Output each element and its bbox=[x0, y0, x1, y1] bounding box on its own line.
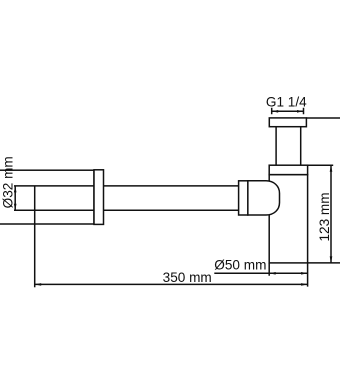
tailpiece flange bbox=[269, 118, 306, 127]
compression nut bbox=[239, 181, 248, 215]
svg-text:123 mm: 123 mm bbox=[317, 192, 332, 241]
inlet pipe wall lines (also Ø32 extension lines) bbox=[14, 186, 239, 210]
dimension line Ø32 bbox=[14, 186, 16, 210]
svg-text:Ø32 mm: Ø32 mm bbox=[1, 156, 16, 208]
extension line at flange top level bbox=[306, 117, 340, 119]
svg-text:350 mm: 350 mm bbox=[163, 270, 212, 285]
tailpiece pipe bbox=[276, 127, 301, 166]
elbow boss bbox=[248, 181, 280, 215]
dimension line 123 mm bbox=[330, 165, 332, 263]
trap collar bbox=[269, 165, 307, 174]
wall flange bbox=[94, 170, 104, 225]
pipe end cap and 350 mm left extension line bbox=[34, 186, 36, 287]
wall sleeve tube bbox=[0, 170, 94, 224]
extension line at collar top level bbox=[308, 164, 334, 166]
dimension G1 1/4 ticks and line bbox=[272, 108, 304, 114]
svg-text:Ø50 mm: Ø50 mm bbox=[214, 257, 266, 272]
extension lines for Ø50 bbox=[269, 263, 307, 287]
svg-text:G1 1/4: G1 1/4 bbox=[266, 95, 307, 110]
dimension line Ø50 bbox=[214, 272, 307, 274]
trap body bbox=[269, 175, 307, 263]
extension line at body bottom level bbox=[308, 262, 340, 264]
dimension line 350 mm bbox=[35, 283, 308, 285]
